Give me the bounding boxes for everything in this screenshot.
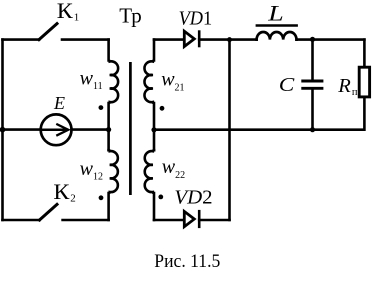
winding w22 (secondary bottom) xyxy=(145,150,154,220)
wire middle-left (E left segment) xyxy=(3,128,41,131)
node A junction dot (diode outputs) xyxy=(227,37,232,42)
svg-text:VD1: VD1 xyxy=(179,7,213,29)
capacitor C plates xyxy=(301,80,323,83)
svg-text:C: C xyxy=(279,74,295,96)
polarity dot w12 xyxy=(99,195,104,200)
svg-text:L: L xyxy=(267,0,284,25)
wire diode-output rail xyxy=(228,40,231,220)
node junction dot (C bottom) xyxy=(310,127,315,132)
wire L to node B xyxy=(297,38,365,41)
source E arrow xyxy=(43,129,66,132)
winding w21 (secondary top) xyxy=(144,40,154,151)
capacitor C top lead xyxy=(311,40,314,80)
wire VD1 to node A xyxy=(199,38,256,41)
wire top-left (K1 right segment) xyxy=(62,38,109,41)
node B junction dot (C top) xyxy=(310,37,315,42)
winding w11 (primary top) xyxy=(109,40,119,151)
switch K1 lever xyxy=(39,24,57,40)
wire right rail lower xyxy=(313,97,365,130)
wire middle-left (E right segment) xyxy=(72,128,109,131)
svg-text:Тр: Тр xyxy=(119,4,142,28)
resistor Rn body xyxy=(359,67,369,97)
winding w12 (primary bottom) xyxy=(109,150,118,220)
svg-text:E: E xyxy=(53,93,65,113)
inductor L humps xyxy=(257,32,297,40)
inductor L bar xyxy=(256,24,298,27)
node junction dot primary center tap xyxy=(106,127,111,132)
wire left rail xyxy=(1,40,4,220)
wire secondary bottom to VD2 xyxy=(154,219,184,222)
node junction dot secondary center tap xyxy=(151,127,156,132)
wire right rail upper xyxy=(363,40,366,68)
transformer core xyxy=(129,62,132,195)
switch K2 lever xyxy=(40,204,58,220)
wire top-left (K1 left segment) xyxy=(3,38,40,41)
diode VD1 xyxy=(184,31,194,46)
polarity dot w11 xyxy=(99,105,104,110)
capacitor C bottom lead xyxy=(311,90,314,130)
svg-text:VD2: VD2 xyxy=(174,187,212,209)
svg-text:Рис. 11.5: Рис. 11.5 xyxy=(154,251,220,272)
wire bottom-left (K2 right segment) xyxy=(63,219,109,222)
wire bottom-left (K2 left segment) xyxy=(3,219,40,222)
wire secondary top to VD1 xyxy=(154,38,184,41)
wire VD2 to rail xyxy=(199,219,229,222)
diode VD2 xyxy=(184,211,194,226)
source E circle xyxy=(41,114,72,145)
wire middle rail (center tap to load) xyxy=(154,128,313,131)
node junction dot left-middle xyxy=(0,127,5,133)
polarity dot w22 xyxy=(158,195,163,200)
polarity dot w21 xyxy=(160,106,165,111)
